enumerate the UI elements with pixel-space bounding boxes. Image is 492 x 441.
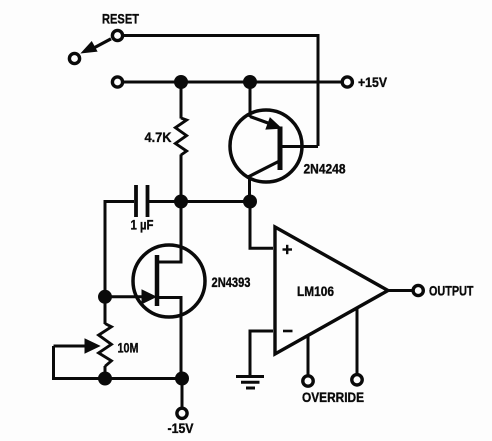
node junction 10M bottom <box>98 372 112 386</box>
wire rail to resistor top <box>180 82 183 119</box>
svg-text:+15V: +15V <box>358 75 387 90</box>
svg-text:2N4248: 2N4248 <box>304 162 346 177</box>
switch S1 terminal (lower) <box>69 53 79 63</box>
terminal circle: +15V rail left end <box>112 77 122 87</box>
rheostat R2 wiper arrow <box>54 339 100 353</box>
transistor Q1 emitter lead from +15V with arrow into bar <box>250 82 281 129</box>
svg-text:OVERRIDE: OVERRIDE <box>302 390 364 405</box>
label OVERRIDE <box>302 390 364 405</box>
wire op-amp - input to ground <box>250 331 273 375</box>
JFET Q2 source lead down to -15V rail <box>157 298 181 379</box>
svg-text:LM106: LM106 <box>297 284 334 299</box>
label 10M <box>118 341 139 356</box>
JFET Q2 channel bar <box>155 255 160 306</box>
rheostat R2 10M zigzag <box>99 324 112 367</box>
label 2N4248 <box>304 162 346 177</box>
svg-text:10M: 10M <box>118 341 139 356</box>
wire node row y=201 (cap right plate to node B) <box>149 200 250 203</box>
node A junction (resistor/cap/JFET drain) <box>174 195 188 209</box>
label -15V <box>168 421 194 436</box>
wire +15V rail <box>124 81 342 84</box>
wire RESET line: right along top then down to Q1 base <box>124 36 318 147</box>
terminal circle -15V <box>177 408 187 418</box>
label 2N4393 <box>212 275 251 290</box>
resistor R1 4.7K zigzag <box>175 118 186 155</box>
wire wiper loop down and bottom rail <box>54 346 183 379</box>
label 1 uF <box>131 218 154 233</box>
transistor Q1 2N4248 circle <box>230 110 302 182</box>
switch S1 terminal (upper, RESET) <box>112 30 122 40</box>
transistor Q1 base lead to RESET wire <box>282 145 318 148</box>
override pin 2 wire and terminal <box>352 309 362 385</box>
terminal circle OUTPUT <box>413 285 423 295</box>
node junction on rail at resistor top <box>174 75 188 89</box>
JFET Q2 gate lead with arrow <box>111 290 156 304</box>
wire to -15V terminal <box>181 379 184 408</box>
svg-text:OUTPUT: OUTPUT <box>429 284 474 299</box>
wire capacitor left plate to left vertical <box>105 202 134 297</box>
label RESET <box>102 12 140 27</box>
node B junction (Q1 collector / op-amp + input) <box>243 195 257 209</box>
wire 10M bottom to rail <box>104 366 107 379</box>
ground symbol <box>236 377 264 389</box>
svg-text:-15V: -15V <box>168 421 194 436</box>
capacitor C1 1uF plates <box>136 185 148 217</box>
switch S1 arm with arrowhead <box>82 39 111 53</box>
label +15V <box>358 75 387 90</box>
JFET Q2 2N4393 circle <box>133 245 205 317</box>
terminal circle +15V <box>342 77 352 87</box>
JFET Q2 drain lead up to node A <box>157 202 181 263</box>
wire node B to op-amp + input <box>250 202 273 249</box>
label OUTPUT <box>429 284 474 299</box>
svg-text:4.7K: 4.7K <box>145 130 172 145</box>
wire op-amp output <box>388 289 413 292</box>
svg-text:1 µF: 1 µF <box>131 218 154 233</box>
wire resistor bottom to node A <box>180 155 183 202</box>
transistor Q1 collector lead down to node B <box>249 161 280 202</box>
transistor Q1 base bar <box>278 127 283 171</box>
svg-text:2N4393: 2N4393 <box>212 275 251 290</box>
op-amp plus sign <box>283 245 293 254</box>
wire gate node down to 10M top <box>104 297 107 324</box>
svg-text:RESET: RESET <box>102 12 140 27</box>
label 4.7K <box>145 130 172 145</box>
node junction source / -15V <box>175 372 189 386</box>
node junction on rail at Q1 emitter <box>243 75 257 89</box>
node junction JFET gate tap <box>98 290 112 304</box>
op-amp minus sign <box>283 330 293 333</box>
label LM106 <box>297 284 334 299</box>
op-amp U1 LM106 triangle <box>275 227 388 354</box>
override pin 1 wire and terminal <box>303 336 313 386</box>
